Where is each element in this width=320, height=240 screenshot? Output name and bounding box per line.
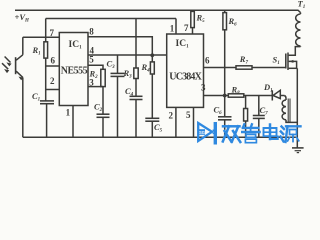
svg-text:D1: D1: [263, 82, 273, 94]
capacitor C5: [145, 118, 159, 137]
wire pin 6 NE555: [46, 65, 60, 67]
watermark logo triangle: [198, 123, 214, 141]
svg-text:R7: R7: [239, 54, 249, 66]
svg-text:R1: R1: [32, 45, 41, 57]
resistor R3: [134, 68, 138, 79]
svg-text:S1: S1: [273, 55, 280, 67]
wire pin 4 NE555 to UC384X left: [88, 54, 167, 56]
node junction dot R6/pin3 wire: [223, 94, 227, 98]
transformer T1 primary winding: [296, 13, 301, 47]
watermark logo bar: [214, 122, 217, 145]
wire pin 3 NE555: [88, 86, 103, 88]
svg-text:6: 6: [205, 56, 210, 66]
resistor R8 (series sense): [228, 94, 244, 97]
wire pin 3 UC384X sense: [204, 95, 229, 97]
svg-text:SG: SG: [199, 130, 205, 135]
svg-text:R5: R5: [196, 13, 206, 25]
wire R7 to gate S1: [252, 67, 286, 69]
diode D1: [271, 90, 284, 100]
transformer T1 secondary winding: [282, 96, 297, 123]
wire pin 2 NE555: [46, 89, 60, 91]
svg-text:R8: R8: [231, 85, 241, 97]
ground rail bottom: [23, 136, 298, 138]
wire R2 bottom to C2: [102, 87, 104, 115]
wire pin 5 NE555: [88, 65, 103, 69]
light arrow 1 into phototransistor: [5, 57, 12, 67]
wire pin 5 UC384X to ground rail: [193, 107, 195, 137]
resistor R9 (sense shunt): [244, 96, 248, 138]
wire S1 source down to ground: [296, 68, 298, 148]
wire pin 7 NE555 horizontal: [23, 36, 60, 38]
svg-text:+VH: +VH: [15, 12, 31, 24]
svg-text:5: 5: [186, 110, 191, 120]
svg-text:T1: T1: [298, 0, 306, 10]
capacitor C3 (hangs from pin4 wire): [111, 55, 125, 137]
svg-text:3: 3: [201, 83, 206, 93]
svg-text:5: 5: [89, 55, 94, 65]
wire pin 6 UC384X gate drive: [204, 67, 237, 69]
svg-text:UC384X: UC384X: [169, 72, 202, 83]
watermark char 源: [281, 126, 301, 142]
wire R3 to C4: [135, 79, 137, 97]
svg-text:R2: R2: [89, 69, 99, 81]
op-amp U1 NE555 timer box: [59, 33, 88, 106]
svg-text:7: 7: [184, 23, 189, 33]
svg-text:C1: C1: [32, 91, 40, 103]
wire second rail pin7-NE555 to pin1-UC384X: [46, 18, 176, 20]
svg-text:NE555: NE555: [61, 66, 88, 77]
svg-text:R3: R3: [123, 68, 133, 80]
svg-text:8: 8: [89, 27, 94, 37]
svg-text:1: 1: [170, 24, 175, 34]
svg-text:IC1: IC1: [69, 40, 83, 51]
op-amp U2 UC384X box: [167, 34, 204, 107]
watermark char 电: [264, 125, 278, 140]
capacitor C2: [97, 114, 110, 137]
wire pin 8 NE555: [88, 37, 152, 56]
wire vertical from second rail down through R3/C4: [135, 19, 137, 69]
node +VH top supply rail: [15, 10, 301, 12]
svg-text:2: 2: [169, 111, 174, 121]
capacitor C6: [218, 117, 232, 137]
svg-text:1: 1: [66, 108, 71, 118]
svg-text:C3: C3: [107, 59, 116, 71]
transistor Q1 MOSFET S1: [286, 47, 301, 70]
resistor R1 (left of NE555, pin7 to pin6/2 chain): [44, 37, 48, 101]
wire pin 2 UC384X to ground rail: [175, 107, 177, 137]
resistor R2 (pin5 to pin3 of NE555): [101, 69, 105, 86]
svg-text:C6: C6: [214, 105, 223, 117]
resistor R5 (VCC feed to pin 7 UC): [191, 10, 195, 34]
svg-text:IC1: IC1: [176, 39, 190, 50]
svg-text:C2: C2: [94, 102, 103, 114]
light arrow 2 into phototransistor: [2, 63, 9, 73]
watermark char 管: [242, 124, 259, 142]
watermark char 双: [223, 126, 241, 142]
resistor R4 (below pin8 node): [150, 56, 154, 119]
svg-text:R6: R6: [228, 16, 238, 28]
svg-text:C4: C4: [125, 86, 134, 98]
resistor R7 (series gate): [236, 66, 252, 69]
node junction dot pin8/pin4: [150, 53, 154, 57]
svg-text:R4: R4: [141, 62, 151, 74]
svg-text:2: 2: [50, 76, 55, 86]
capacitor C7 (sense filter): [253, 96, 265, 138]
svg-text:6: 6: [51, 56, 56, 66]
resistor R6 (from top rail down): [223, 10, 227, 117]
wire R8 to D1: [244, 95, 271, 97]
phototransistor V1: [16, 37, 24, 137]
capacitor C4: [130, 96, 143, 137]
transformer T1 core: [288, 99, 290, 123]
capacitor C1: [40, 101, 54, 137]
wire pin 1 UC384X from second rail: [175, 19, 177, 35]
wire vertical from second rail down to pin7 node: [45, 19, 47, 38]
svg-text:C5: C5: [154, 122, 163, 134]
svg-text:7: 7: [50, 28, 55, 38]
wire pin 1 NE555 to ground rail: [72, 106, 74, 138]
ground symbol: [292, 148, 304, 153]
svg-text:C7: C7: [260, 105, 269, 117]
